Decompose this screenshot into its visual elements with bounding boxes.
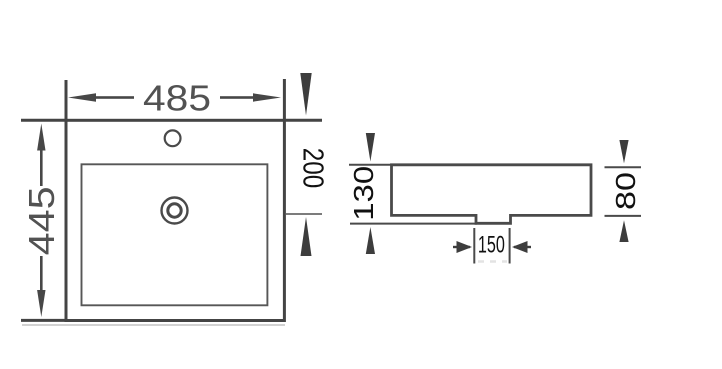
dimension 485 right arrow bbox=[220, 93, 281, 101]
dimension 130 top arrow bbox=[366, 133, 375, 162]
extension line left-bottom (445 dim) bbox=[21, 319, 66, 322]
dimension 200 bottom arrow bbox=[301, 217, 312, 256]
dimension 80 bottom arrow bbox=[619, 220, 628, 242]
extension line right-top (200 dim) bbox=[284, 119, 322, 122]
faint erased marks under 150 label bbox=[478, 260, 507, 263]
drain outer ring bbox=[162, 198, 188, 224]
svg-text:485: 485 bbox=[143, 78, 211, 119]
basin outer outline (plan view) bbox=[66, 120, 284, 320]
svg-text:130: 130 bbox=[348, 166, 379, 221]
extension line top-right (485 dim, right) bbox=[283, 79, 286, 120]
extension line 150 left bbox=[473, 228, 475, 264]
drain inner ring bbox=[168, 204, 181, 217]
svg-text:200: 200 bbox=[296, 148, 328, 189]
faucet hole bbox=[165, 130, 181, 146]
side view body outline with drain notch bbox=[392, 165, 592, 224]
dimension 485 left arrow bbox=[68, 93, 134, 101]
faint ghost line under basin bottom edge bbox=[22, 324, 285, 326]
extension line side-left-bottom (130 dim, notch level) bbox=[350, 223, 477, 225]
dimension 445 top arrow bbox=[37, 124, 45, 187]
dimension 150 left arrow bbox=[453, 241, 472, 253]
svg-text:80: 80 bbox=[610, 172, 641, 210]
dimension 130 bottom arrow bbox=[366, 227, 375, 254]
dimension 200 top arrow bbox=[300, 73, 311, 116]
extension line left-top (445 dim) bbox=[21, 119, 66, 122]
dimension 445 bottom arrow bbox=[37, 256, 45, 317]
extension line 150 right bbox=[509, 228, 511, 264]
extension line side-right-bottom (80 dim) bbox=[605, 215, 642, 217]
dimension 150 right arrow bbox=[512, 241, 531, 253]
svg-text:445: 445 bbox=[21, 186, 62, 255]
basin inner bowl rectangle bbox=[82, 164, 268, 305]
extension line right-mid (200 dim, drain level) bbox=[286, 213, 322, 215]
extension line side-right-top (80 dim) bbox=[605, 166, 642, 168]
dimension 80 top arrow bbox=[619, 140, 628, 163]
extension line side-left-top (130 dim) bbox=[349, 164, 392, 166]
extension line top-left (485 dim, left) bbox=[65, 80, 68, 120]
svg-text:150: 150 bbox=[478, 232, 505, 259]
